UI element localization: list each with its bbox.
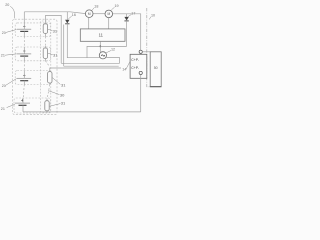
module box 2 (dashed) xyxy=(15,47,50,61)
svg-text:31: 31 xyxy=(61,101,66,106)
svg-text:50: 50 xyxy=(154,66,158,70)
resistor R1 (31) xyxy=(43,24,47,34)
battery cell B1 (21) xyxy=(17,25,31,31)
battery chain dashed continuation xyxy=(23,37,24,99)
battery cell B4 (21) xyxy=(15,99,30,105)
wire: contactor 19 down to box 11 xyxy=(108,18,110,29)
svg-text:16: 16 xyxy=(72,13,76,17)
wire: sensor right to loop corner xyxy=(106,58,119,64)
module box 1 (dashed) xyxy=(15,23,50,37)
contactor K18 circle xyxy=(85,10,93,18)
battery cell B2 (21) xyxy=(17,50,31,56)
svg-text:12: 12 xyxy=(111,47,115,51)
resistor chain wire (solid segments) xyxy=(45,15,49,112)
svg-text:M: M xyxy=(88,12,91,16)
box U11 xyxy=(80,29,125,41)
wire: D17 cathode down xyxy=(126,21,128,47)
wire: riser B2 xyxy=(63,25,65,67)
svg-text:C+P-: C+P- xyxy=(131,58,139,62)
svg-text:M: M xyxy=(107,12,110,16)
wire: line B2 xyxy=(64,65,119,67)
port top terminal xyxy=(139,50,142,53)
wire: line C mid-pack tap xyxy=(50,68,121,72)
wire: D16 cathode down to lower rail, to current sensor xyxy=(67,24,99,58)
diode D16 xyxy=(65,20,69,24)
crossbar wire from D17 cathode to lower rail xyxy=(87,46,127,57)
diode D17 xyxy=(124,17,128,21)
bottom rail wire xyxy=(23,111,141,113)
svg-text:21: 21 xyxy=(2,84,6,88)
svg-text:31: 31 xyxy=(61,83,66,88)
resistor R4 (31) xyxy=(45,101,49,111)
wire between contactors xyxy=(93,13,105,15)
wire: port top terminal to charger 50 xyxy=(142,51,150,53)
svg-text:31: 31 xyxy=(53,28,58,33)
wire contactor2 to right corner, down to port xyxy=(113,14,141,50)
module box 3 (dashed) xyxy=(15,71,50,85)
svg-text:17: 17 xyxy=(131,11,135,15)
svg-text:20: 20 xyxy=(5,3,9,7)
svg-text:C+P-: C+P- xyxy=(131,66,139,70)
svg-text:21: 21 xyxy=(1,107,5,111)
contactor K19 circle xyxy=(105,10,113,18)
battery pack outer dashed box 20 xyxy=(13,19,57,114)
svg-text:30: 30 xyxy=(60,93,65,98)
wire: line B1 to port junction loop xyxy=(61,62,119,64)
svg-text:18: 18 xyxy=(94,4,98,8)
top rail wire xyxy=(24,12,85,14)
bleeding unit dashed box 30 (resistor column) xyxy=(40,21,51,113)
wire: port bottom terminal down xyxy=(140,75,142,112)
charge port box 14 xyxy=(130,54,147,78)
module box 4 (dashed) xyxy=(14,98,51,113)
svg-text:31: 31 xyxy=(53,52,58,57)
wire: resistor column top link to riser A xyxy=(45,15,61,63)
svg-text:19: 19 xyxy=(115,4,119,8)
charger box 50 xyxy=(150,52,161,87)
svg-text:10: 10 xyxy=(151,14,155,18)
current sensor 12 circle xyxy=(99,52,106,59)
battery cell B3 (21) xyxy=(17,74,31,80)
resistor chain dashed continuation xyxy=(45,37,49,99)
svg-text:11: 11 xyxy=(99,32,104,37)
diode D17 branch wire xyxy=(126,14,128,17)
resistor R3 (31) xyxy=(48,72,52,83)
svg-text:21: 21 xyxy=(2,31,6,35)
vehicle boundary line 10 (dash-dot) xyxy=(147,8,150,87)
wire: box 11 bottom to current sensor 12 xyxy=(99,41,101,52)
junction dot xyxy=(99,46,101,48)
resistor R2 (31) xyxy=(43,48,47,59)
svg-text:21: 21 xyxy=(1,53,5,57)
battery chain wire (solid segments) xyxy=(23,12,24,112)
svg-text:14: 14 xyxy=(122,67,126,71)
diode D16 branch wire xyxy=(66,12,68,20)
wire: contactor 18 down to box 11 xyxy=(88,18,90,29)
port bottom terminal xyxy=(139,71,142,74)
